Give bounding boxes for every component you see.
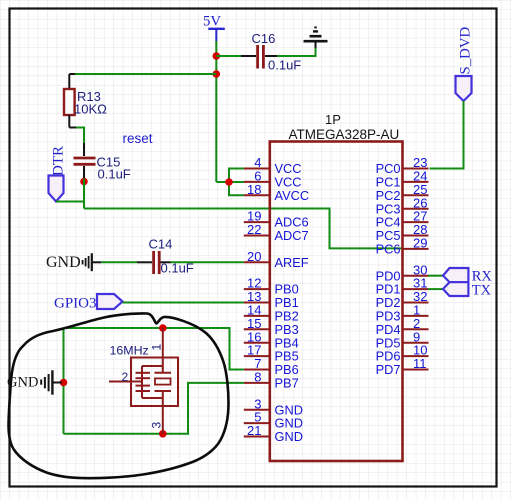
svg-text:ADC7: ADC7 (275, 228, 309, 243)
node VCC junction (225, 178, 233, 186)
svg-text:AREF: AREF (275, 255, 309, 270)
pin 26 PC3 (right) (376, 195, 429, 216)
node crystal pin3 junction (159, 430, 167, 438)
svg-text:2: 2 (122, 370, 129, 384)
pin 8 PB7 (left) (244, 370, 299, 391)
svg-text:PB7: PB7 (275, 376, 299, 391)
svg-text:C16: C16 (252, 31, 276, 46)
port S_DVD (456, 27, 474, 101)
svg-text:21: 21 (247, 423, 261, 438)
pin 27 PC4 (right) (376, 209, 429, 230)
pin 14 PB2 (left) (244, 303, 299, 324)
node 5V/C16 junction (213, 52, 221, 60)
svg-text:0.1uF: 0.1uF (268, 58, 301, 73)
wire DTR to C15 node (56, 201, 84, 203)
pin 25 PC2 (right) (376, 182, 429, 203)
ground GND (crystal) (7, 370, 62, 394)
pin 6 VCC (left) (244, 169, 302, 190)
crystal Y1 16MHz (109, 328, 178, 434)
svg-text:S_DVD: S_DVD (458, 27, 474, 75)
wire crystal top loop to PB6 (64, 328, 244, 370)
wire C16 to ground (277, 47, 316, 56)
pin 30 PD0 (right) (376, 262, 429, 283)
wire GND to C14 (101, 261, 137, 263)
wire PD0 to RX (428, 275, 444, 277)
wire 5V to C16 (216, 55, 241, 57)
wire R13 to C15 (76, 128, 84, 144)
pin 16 PB4 (left) (244, 329, 299, 350)
pin 15 PB3 (left) (244, 316, 299, 337)
pin 7 PB6 (left) (244, 356, 299, 377)
wire S_DVD to PC0 (430, 101, 464, 169)
node 5V/R13 junction (213, 70, 221, 78)
wire GPIO3 to PB1 (123, 302, 244, 304)
wire crystal bottom loop (64, 383, 244, 434)
svg-text:5V: 5V (203, 13, 221, 29)
svg-text:18: 18 (247, 182, 261, 197)
wire C14 to AREF (171, 261, 244, 263)
capacitor C14 (137, 237, 194, 276)
svg-text:16MHz: 16MHz (110, 344, 149, 358)
pin 3 GND (left) (244, 396, 303, 417)
svg-text:C14: C14 (149, 237, 173, 252)
node C15/DTR junction (80, 178, 88, 186)
pin 32 PD2 (right) (376, 289, 429, 310)
svg-text:20: 20 (247, 249, 261, 264)
svg-text:3: 3 (150, 422, 164, 429)
pin 21 GND (left) (244, 423, 303, 444)
svg-text:10KΩ: 10KΩ (74, 102, 107, 117)
svg-text:29: 29 (413, 236, 427, 251)
pin 20 AREF (left) (244, 249, 309, 270)
capacitor C15 (74, 143, 131, 182)
svg-text:PD7: PD7 (376, 362, 401, 377)
svg-text:DTR: DTR (51, 146, 67, 176)
pin 13 PB1 (left) (244, 289, 299, 310)
pin 1 PD3 (right) (376, 303, 429, 324)
resistor R13 (64, 74, 107, 128)
svg-text:1: 1 (150, 344, 164, 351)
wire VCC feed horizontal (216, 181, 244, 183)
svg-text:0.1uF: 0.1uF (98, 167, 131, 182)
pin 17 PB5 (left) (244, 343, 299, 364)
wire VCC fan (229, 169, 244, 196)
port GPIO3 (54, 294, 123, 312)
pin 5 GND (left) (244, 410, 303, 431)
wire PD1 to TX (428, 288, 444, 290)
wire 5V vertical rail (215, 41, 217, 182)
svg-text:8: 8 (254, 370, 261, 385)
svg-text:GND: GND (46, 254, 81, 271)
node GND crystal junction (60, 379, 68, 387)
pin 29 PC6 (right) (376, 236, 429, 257)
port TX (443, 282, 492, 298)
capacitor C16 (241, 31, 301, 73)
port RX (443, 268, 492, 284)
svg-text:1P: 1P (325, 112, 341, 127)
wire GND left vertical (63, 328, 65, 434)
wire 5V to R13 (75, 73, 216, 75)
pin 12 PB0 (left) (244, 276, 299, 297)
port DTR (49, 146, 67, 202)
pin 10 PD6 (right) (376, 343, 429, 364)
pin 24 PC1 (right) (376, 169, 429, 190)
svg-text:PC6: PC6 (376, 242, 401, 257)
ground GND (AREF filter) (46, 253, 101, 271)
svg-text:TX: TX (472, 283, 492, 299)
svg-text:GPIO3: GPIO3 (54, 296, 97, 312)
pin 9 PD5 (right) (376, 329, 429, 350)
pin 19 ADC6 (left) (244, 209, 309, 230)
pin 11 PD7 (right) (376, 356, 429, 377)
svg-text:ATMEGA328P-AU: ATMEGA328P-AU (289, 127, 400, 142)
pin 18 AVCC (left) (244, 182, 309, 203)
svg-text:11: 11 (413, 356, 427, 371)
pin 31 PD1 (right) (376, 276, 429, 297)
wire C15 to reset net (83, 179, 85, 209)
freehand circle annotation (9, 313, 229, 478)
pin 28 PC5 (right) (376, 222, 429, 243)
svg-text:22: 22 (247, 222, 261, 237)
node crystal pin1 junction (159, 324, 167, 332)
svg-text:reset: reset (123, 131, 153, 146)
op-amp U1 body ATMEGA328P-AU (270, 142, 403, 462)
wire reset to PC6 (84, 209, 402, 249)
ground (earth) top (304, 27, 328, 48)
pin 22 ADC7 (left) (244, 222, 309, 243)
power symbol 5V (203, 13, 225, 41)
pin 23 PC0 (right) (376, 155, 429, 176)
svg-text:GND: GND (275, 429, 303, 444)
pin 2 PD4 (right) (376, 316, 429, 337)
svg-text:AVCC: AVCC (275, 188, 310, 203)
pin 4 VCC (left) (244, 155, 302, 176)
